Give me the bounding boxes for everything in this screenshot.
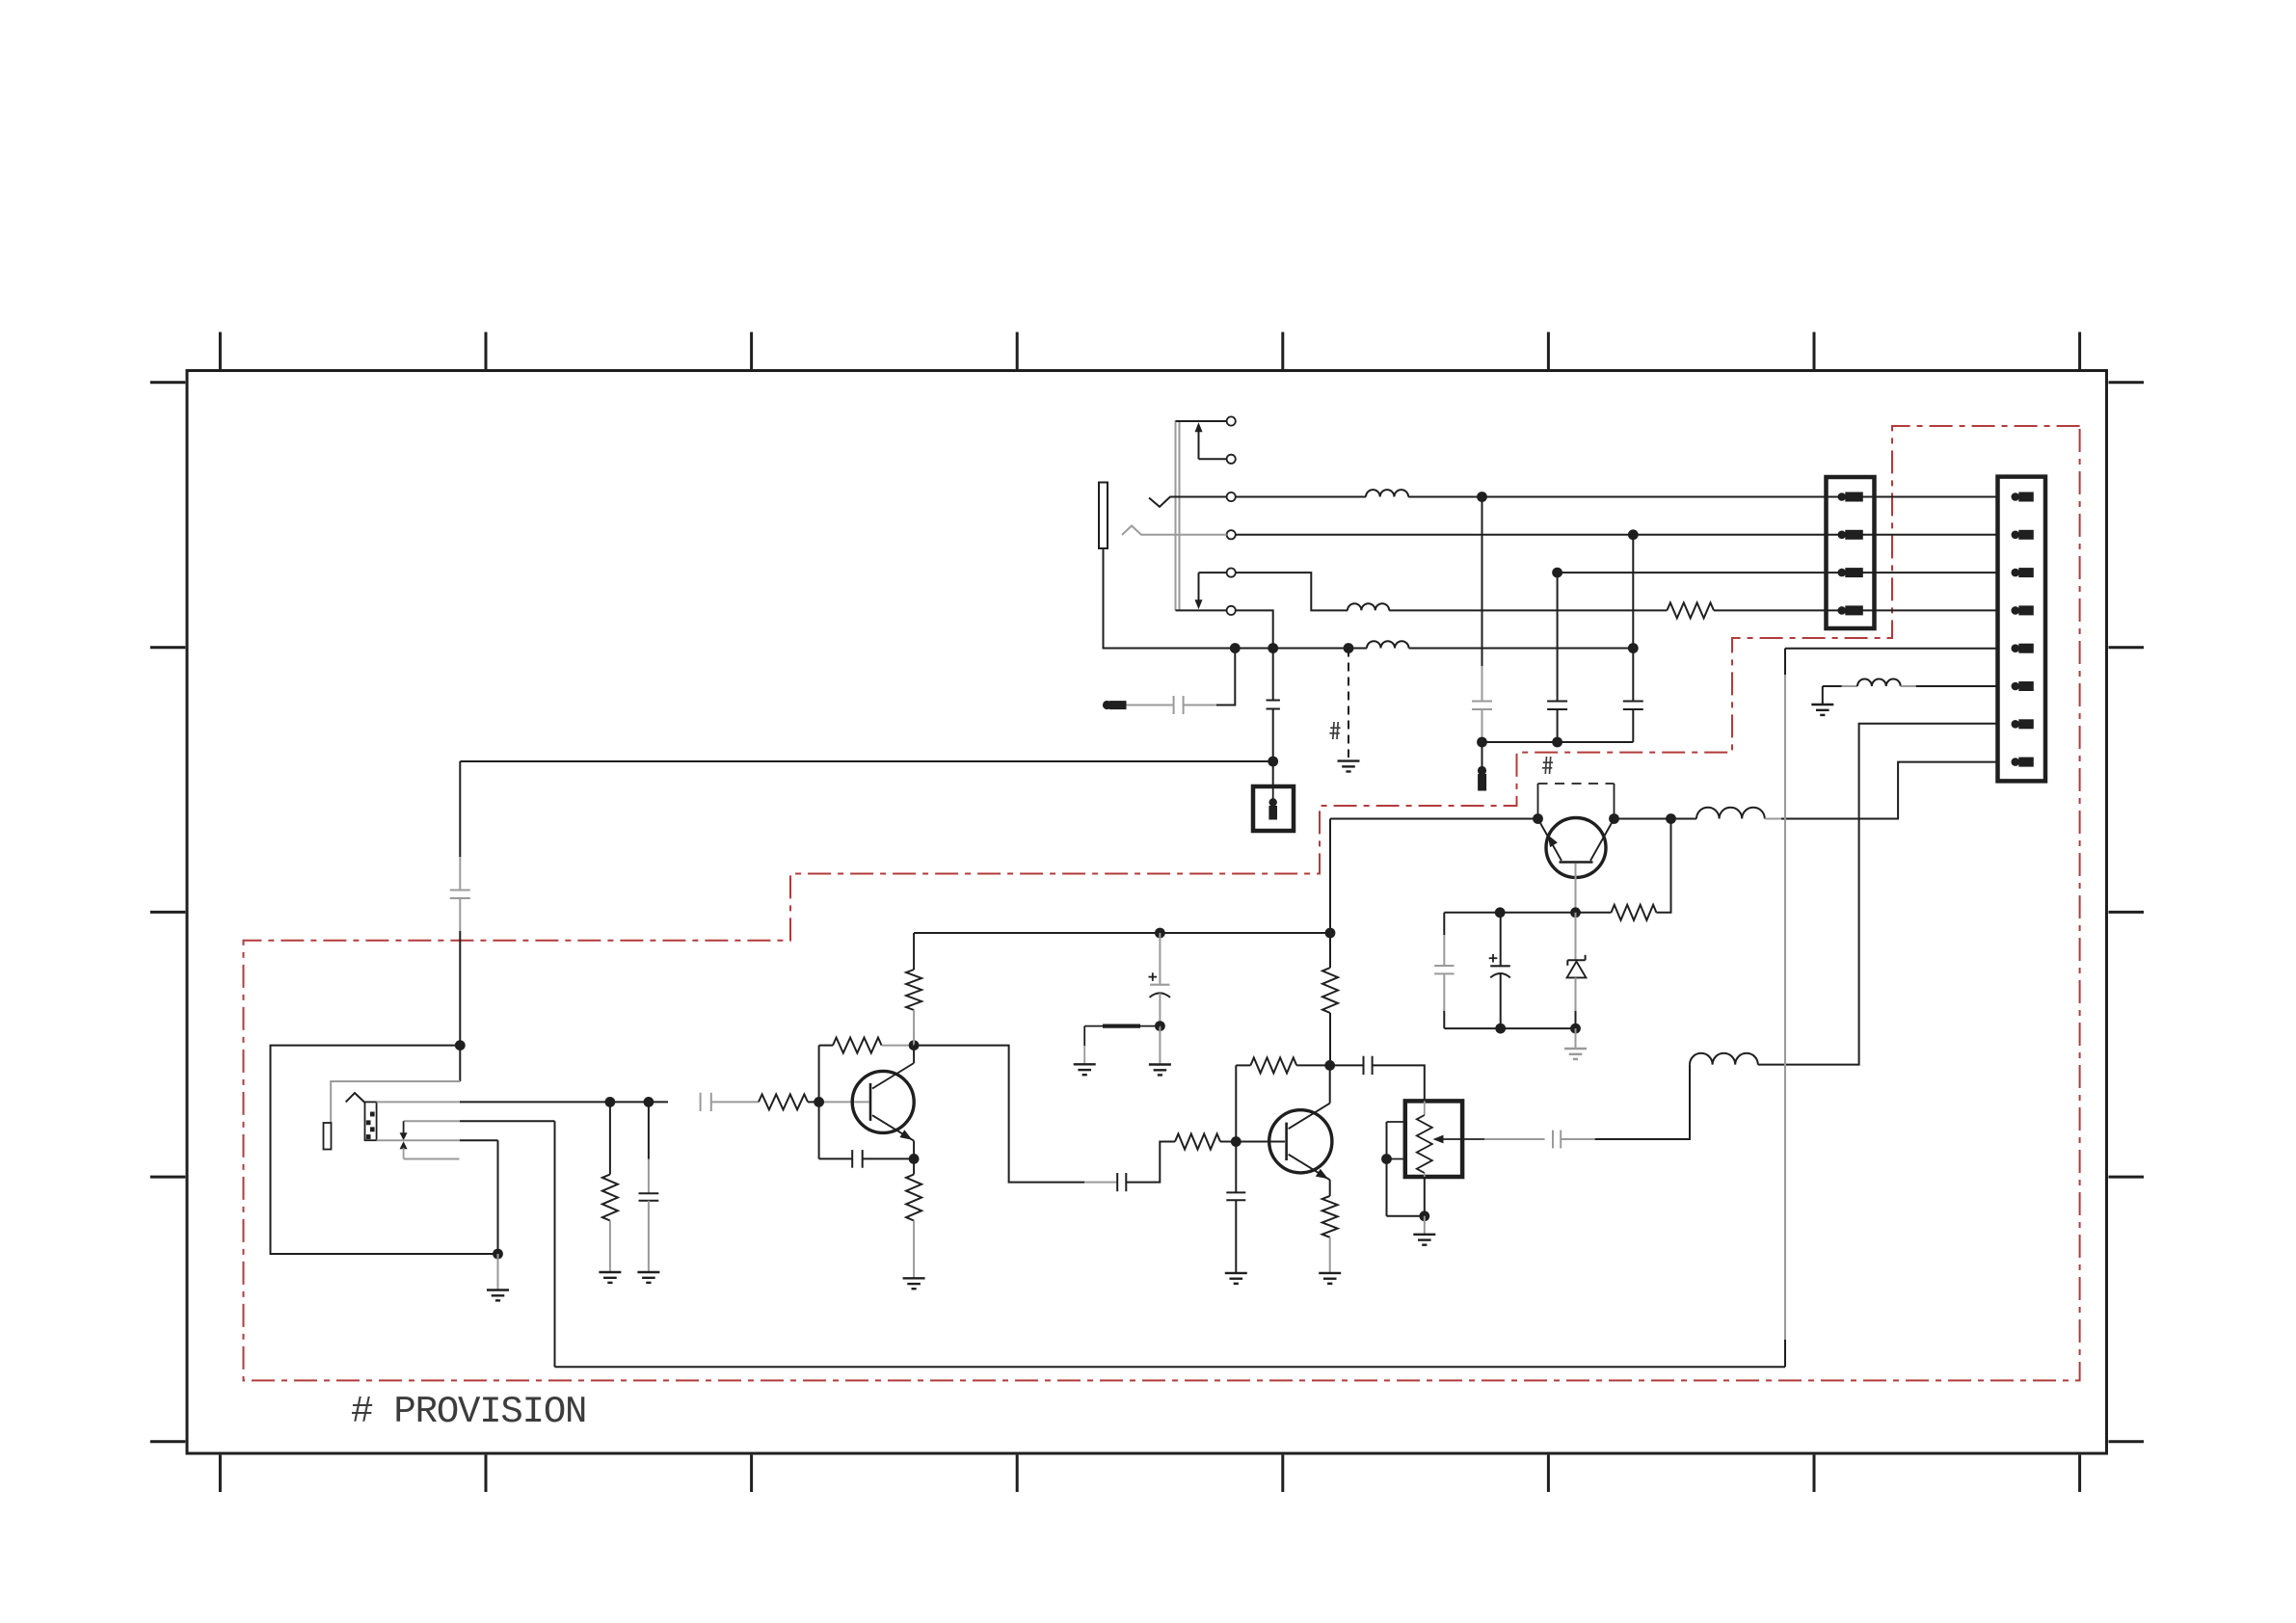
node net947 cap	[1495, 907, 1506, 918]
wire R8-node	[1296, 1064, 1363, 1066]
transistor Q3 base bar	[1560, 861, 1593, 864]
node Q3 emitter net	[1570, 907, 1581, 918]
wire cap C4 lower	[1272, 709, 1274, 787]
wire C9-emitter	[863, 1157, 914, 1159]
node C10 bottom	[1155, 1021, 1165, 1031]
wire C11-R7	[1126, 1142, 1175, 1183]
connector J4 pin 1	[2012, 492, 2034, 501]
node RV1 ground	[1419, 1211, 1429, 1221]
transistor Q2 emitter lead	[1289, 1155, 1330, 1196]
text # PROVISION	[351, 1391, 586, 1433]
wire C8-R3	[711, 1101, 759, 1103]
jack J1 switch arrow down	[1195, 572, 1203, 609]
capacitor C1	[1472, 702, 1492, 710]
potentiometer RV1 element	[1417, 1101, 1432, 1177]
jack J1 plug contact lines	[1176, 421, 1180, 611]
zener diode D1	[1567, 955, 1587, 978]
connector J4 pin 2	[2012, 530, 2034, 539]
wire RV1 ground stub	[1424, 1216, 1426, 1235]
jack J1 body	[1099, 483, 1108, 549]
wire C7 ground lead	[648, 1201, 650, 1272]
wire G11 stub	[1575, 1028, 1577, 1048]
node net-mic	[455, 1040, 466, 1051]
wire R6 ground lead	[913, 1221, 915, 1278]
wire D1 top lead	[1575, 913, 1577, 960]
wire J1 T1	[1176, 420, 1227, 422]
connector J4 pin 6	[2012, 682, 2034, 691]
jack J1 terminal 5	[1227, 569, 1236, 577]
resistor R2	[602, 1175, 618, 1221]
wire line D mid	[1389, 609, 1667, 611]
inductor L4	[1690, 1053, 1758, 1065]
wire cap C3 lower	[1632, 709, 1634, 742]
capacitor C6	[450, 891, 470, 899]
wire cap C2 upper	[1557, 572, 1559, 701]
wire R2 lead	[609, 1102, 611, 1174]
node Q2 base	[1231, 1136, 1241, 1147]
wire T6 to ground bus	[1236, 610, 1273, 648]
wire line A right	[1408, 496, 1997, 498]
wire C16 top lead	[1500, 913, 1502, 966]
connector J4 pin 8	[2012, 758, 2034, 766]
wire line B	[1236, 534, 1998, 536]
wire Q1 fb cap lead	[819, 1157, 853, 1159]
provision boundary (red dash-dot)	[244, 426, 2080, 1380]
capacitor C3	[1623, 702, 1643, 710]
jack J1 terminal 2	[1227, 455, 1236, 464]
wire Q2 base vertical	[1235, 1065, 1237, 1192]
wire pin6 left	[1823, 685, 1857, 687]
transistor Q3 emitter lead	[1538, 819, 1562, 862]
wire G12 stub	[1822, 686, 1824, 705]
wire R4-collector	[882, 1045, 915, 1047]
wire wiper out	[1484, 1138, 1545, 1140]
wire J1 T6	[1176, 609, 1227, 611]
wire line C	[1558, 572, 1998, 573]
wire Q1 out	[914, 1046, 1117, 1183]
wire pin5	[1785, 648, 1998, 650]
transistor Q2 circle	[1269, 1110, 1332, 1173]
jack J1 terminal 6	[1227, 606, 1236, 615]
wire R3-Q1 base	[808, 1101, 869, 1103]
ground G6	[1149, 1065, 1171, 1076]
wire cap C1 upper	[1482, 497, 1483, 702]
ground G4	[903, 1278, 925, 1289]
capacitor C11	[1117, 1173, 1126, 1191]
node C2 bottom	[1552, 737, 1562, 748]
node input C	[644, 1097, 654, 1107]
resistor R5	[906, 970, 921, 1010]
wire J1 T4 with switch mark	[1122, 526, 1227, 536]
node ground bus C	[1344, 643, 1354, 653]
node loop ground	[493, 1249, 503, 1260]
wire TP2 lead	[1126, 705, 1174, 706]
wire R9 ground lead	[1329, 1237, 1331, 1273]
node Q1 base	[814, 1097, 824, 1107]
wire C13-pot	[1373, 1065, 1425, 1101]
wire R5 top lead	[913, 933, 915, 970]
connector J2 box	[1253, 786, 1294, 831]
ground G12	[1811, 705, 1833, 715]
inductor L5	[1696, 808, 1765, 819]
jack J5 contact box	[365, 1102, 377, 1140]
node ground bus A	[1230, 643, 1241, 653]
potentiometer RV1 box	[1405, 1101, 1462, 1177]
wire R7-Q2 base	[1220, 1141, 1285, 1143]
wire Q3 bottom lead	[1575, 864, 1577, 913]
wire J5 tip	[377, 1101, 668, 1103]
capacitor C10 polarity	[1149, 972, 1158, 981]
wire cap C3 upper	[1632, 535, 1634, 701]
wire R6 top lead	[913, 1158, 915, 1174]
resistor R3	[759, 1094, 808, 1109]
potentiometer RV1 wiper	[1433, 1135, 1485, 1144]
wire R10 up	[1656, 819, 1670, 913]
resistor R7	[1175, 1134, 1220, 1150]
wire net947	[1444, 912, 1611, 914]
wire node770 bus	[1482, 741, 1634, 743]
capacitor C15	[1434, 966, 1454, 973]
wire Q3 base feed	[1330, 818, 1538, 820]
jack J1 terminal 1	[1227, 416, 1236, 425]
node C1 bottom	[1477, 737, 1487, 748]
wire Q1 base bias vertical	[818, 1046, 820, 1159]
node RV1 tie	[1381, 1154, 1392, 1164]
wire L5 to pin8	[1765, 762, 1998, 819]
capacitor C5	[1174, 696, 1184, 714]
capacitor C8	[701, 1093, 711, 1111]
node Q3 lead1	[1533, 813, 1543, 824]
wire pin5 vertical	[1784, 649, 1786, 1367]
wire J5 switch stub	[404, 1158, 460, 1160]
inductor L1	[1366, 490, 1408, 496]
node line B junction	[1628, 529, 1639, 540]
wire C12 ground lead	[1235, 1200, 1237, 1272]
ground G9	[1413, 1235, 1435, 1245]
wire J5 switch vertical	[554, 1121, 556, 1367]
wire C10 ground lead	[1159, 1026, 1161, 1064]
capacitor C16 polarity	[1489, 954, 1498, 963]
transistor Q1 emitter lead	[872, 1115, 914, 1158]
node rail968 cross	[1325, 928, 1336, 939]
connector J4 pin 5	[2012, 644, 2034, 652]
jack J5 switch arrows	[400, 1121, 408, 1158]
connector J4 pin 7	[2012, 720, 2034, 729]
wire J1 T5	[1199, 572, 1227, 573]
node Q3 lead2	[1609, 813, 1619, 824]
connector J3 pin 2	[1838, 530, 1863, 539]
connector J3 box	[1827, 477, 1875, 628]
wire J1 T2	[1199, 458, 1227, 460]
ground G10	[1338, 761, 1360, 772]
node input R	[605, 1097, 616, 1107]
wire TP2 branch	[1184, 649, 1236, 705]
node Q1 collector	[909, 1040, 920, 1051]
wire Q1 fb resistor lead	[819, 1045, 833, 1047]
capacitor C10	[1150, 985, 1171, 998]
provision transistor dashed outline	[1538, 784, 1615, 819]
jack J1 terminal 4	[1227, 530, 1236, 539]
wire TP1 lead	[1482, 742, 1483, 767]
inductor L6	[1857, 679, 1901, 686]
connector J4 pin 3	[2012, 569, 2034, 577]
node wire790	[1268, 757, 1278, 767]
wire ground bus left	[1104, 548, 1368, 649]
jack J1 switch arrow up	[1195, 422, 1203, 459]
inductor L3	[1367, 641, 1409, 648]
wire C7 lead	[648, 1102, 650, 1193]
wire J5 ring down	[497, 1140, 499, 1254]
wire cap C6 upper	[459, 761, 461, 890]
node net1067 b	[1570, 1024, 1581, 1034]
wire R2 ground lead	[609, 1221, 611, 1272]
wire L4 to pin7	[1758, 724, 1998, 1065]
capacitor C16	[1490, 966, 1510, 977]
transistor Q2 base bar	[1285, 1123, 1288, 1160]
wire dashed ground branch	[1348, 649, 1349, 758]
resistor R8	[1250, 1057, 1296, 1073]
text # mark 1	[1329, 722, 1340, 739]
wire D1 bottom lead	[1575, 977, 1577, 1028]
node ground bus D	[1628, 643, 1639, 653]
capacitor C2	[1547, 702, 1567, 710]
resistor R9	[1322, 1196, 1338, 1237]
text # mark 2	[1542, 757, 1553, 774]
node net1067 a	[1495, 1024, 1506, 1034]
node rail968 cap	[1155, 928, 1165, 939]
node Q2 collector net	[1324, 1060, 1335, 1071]
connector J3 pin 4	[1838, 606, 1863, 615]
ground G1	[487, 1290, 509, 1301]
wire C10 bottom lead	[1159, 994, 1161, 1026]
wire C15 lower	[1443, 973, 1445, 1028]
wire Q2 collector resistor	[1322, 819, 1338, 1066]
wire R5 bottom lead	[913, 1010, 915, 1046]
node Q1 emitter	[909, 1154, 920, 1164]
ground G3	[637, 1272, 659, 1283]
transistor Q2 collector lead	[1289, 1065, 1330, 1129]
node line C junction	[1552, 568, 1562, 578]
wire rail968	[914, 932, 1330, 934]
wire C10 top lead	[1159, 933, 1161, 985]
wire pin6 right	[1901, 685, 1998, 687]
wire bottom bus	[555, 1366, 1786, 1368]
capacitor C13	[1364, 1056, 1373, 1075]
connector J3 pin 1	[1838, 492, 1863, 501]
resistor R1	[1667, 602, 1714, 618]
jack J5 switch mark	[346, 1093, 365, 1103]
test point TP2	[1103, 701, 1126, 709]
node ground bus B	[1268, 643, 1278, 653]
wire left loop	[271, 1046, 498, 1254]
ground G2	[599, 1272, 621, 1283]
ground G7	[1225, 1273, 1247, 1284]
wire cap C1 lower	[1482, 709, 1483, 742]
wire cap C4 upper	[1272, 649, 1274, 701]
ground G11	[1564, 1049, 1587, 1059]
wire C15 chain	[1443, 913, 1445, 966]
svg-text:# PROVISION: # PROVISION	[351, 1391, 586, 1433]
wire J5 sleeve	[331, 1081, 460, 1123]
wire net790	[460, 760, 1272, 762]
transistor Q3 circle	[1546, 818, 1606, 878]
wire cap C6 lower	[459, 898, 461, 1081]
wire line D right	[1714, 609, 1998, 611]
connector J4 pin 4	[2012, 606, 2034, 615]
wire line A left	[1236, 496, 1366, 498]
resistor R4	[833, 1038, 882, 1053]
wire C16 bottom lead	[1500, 973, 1502, 1028]
wire J1 T3 with switch mark	[1149, 497, 1227, 507]
capacitor C14	[1553, 1131, 1561, 1149]
capacitor C12	[1226, 1192, 1245, 1200]
wire ground bus right	[1409, 648, 1634, 650]
inductor L2	[1348, 603, 1389, 610]
wire RV1 left stubs	[1387, 1122, 1405, 1216]
wire ground stub G1	[497, 1254, 499, 1290]
node line A / C-net	[1477, 492, 1487, 502]
transistor Q1 circle	[852, 1071, 914, 1132]
test point TP1	[1478, 766, 1486, 790]
wire J5 switch	[404, 1120, 555, 1122]
ground G8	[1319, 1273, 1341, 1284]
wire T5 jog	[1236, 572, 1348, 610]
capacitor C7	[639, 1193, 659, 1201]
capacitor C4	[1267, 701, 1280, 709]
wire J5 ring	[377, 1139, 498, 1141]
wire C14 out	[1561, 1065, 1690, 1139]
jack J1 terminal 3	[1227, 492, 1236, 501]
transistor Q3 collector lead	[1590, 819, 1615, 862]
wire RV1 bottom	[1387, 1177, 1425, 1216]
transistor Q1 base bar	[869, 1083, 872, 1121]
jack J5 body	[324, 1123, 332, 1150]
ground G5	[1074, 1064, 1096, 1075]
transistor Q1 collector lead	[872, 1046, 914, 1089]
wire Q3 collector bus	[1615, 818, 1697, 820]
connector J4 box	[1998, 477, 2046, 782]
link bar W1	[1084, 1026, 1160, 1064]
wire net1067	[1444, 1027, 1575, 1029]
connector J2 pin	[1269, 786, 1277, 819]
connector J3 pin 3	[1838, 569, 1863, 577]
wire cap C2 lower	[1557, 709, 1559, 742]
capacitor C9	[852, 1150, 863, 1168]
node Q3 R10 tap	[1666, 813, 1676, 824]
resistor R6	[906, 1175, 921, 1221]
wire R8 lead	[1236, 1064, 1250, 1066]
resistor R10	[1612, 905, 1657, 920]
